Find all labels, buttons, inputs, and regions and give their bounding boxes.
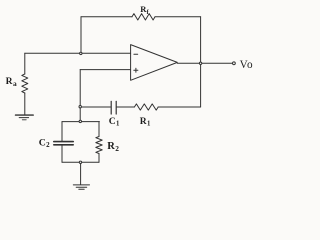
op-amp minus sign bbox=[134, 53, 138, 55]
wire output horizontal bbox=[177, 62, 232, 64]
resistor R2 bbox=[96, 137, 102, 154]
wire top right segment bbox=[155, 16, 201, 18]
capacitor C1 bbox=[111, 101, 116, 114]
resistor R1 bbox=[134, 104, 158, 110]
wire block left branch lower bbox=[61, 145, 63, 162]
wire R1 to right vertical bbox=[158, 106, 200, 108]
node C (output junction) bbox=[199, 62, 201, 64]
wire inverting-input horizontal bbox=[25, 52, 131, 54]
resistor Ra bbox=[22, 74, 28, 93]
wire non-inverting-input horizontal bbox=[80, 69, 130, 71]
wire block right branch upper bbox=[98, 122, 100, 137]
wire block top edge bbox=[62, 121, 99, 123]
wire block left branch upper bbox=[61, 122, 63, 141]
wire C1 to R1 bbox=[117, 106, 135, 108]
node E (block bottom junction) bbox=[79, 161, 81, 163]
wire block bottom node to ground bbox=[80, 162, 82, 184]
node B (C1 / block junction) bbox=[79, 106, 81, 108]
wire block right branch lower bbox=[98, 154, 100, 163]
op-amp U1 bbox=[131, 45, 178, 81]
op-amp plus sign bbox=[134, 68, 138, 72]
wire vertical from non-inverting input down through node B to block bbox=[79, 70, 81, 122]
capacitor C2 bbox=[54, 142, 73, 145]
wire left vertical from top wire to node A bbox=[80, 17, 82, 54]
svg-text:R2: R2 bbox=[107, 141, 119, 153]
node A (inverting input junction) bbox=[80, 52, 82, 54]
output terminal Vo circle bbox=[233, 62, 236, 65]
wire Ra bottom vertical bbox=[24, 93, 26, 114]
wire node B to C1 bbox=[80, 106, 110, 108]
node D (block top junction) bbox=[79, 120, 81, 122]
wire top left segment bbox=[81, 16, 132, 18]
svg-text:Vo: Vo bbox=[240, 59, 253, 71]
resistor Rf bbox=[132, 14, 155, 20]
ground (below C2/R2 block) bbox=[73, 185, 89, 189]
wire Ra top vertical bbox=[24, 53, 26, 74]
wire block bottom edge bbox=[62, 161, 99, 163]
ground (below Ra) bbox=[16, 115, 34, 120]
wire right vertical (Rf/R1 feedback) bbox=[200, 17, 202, 107]
